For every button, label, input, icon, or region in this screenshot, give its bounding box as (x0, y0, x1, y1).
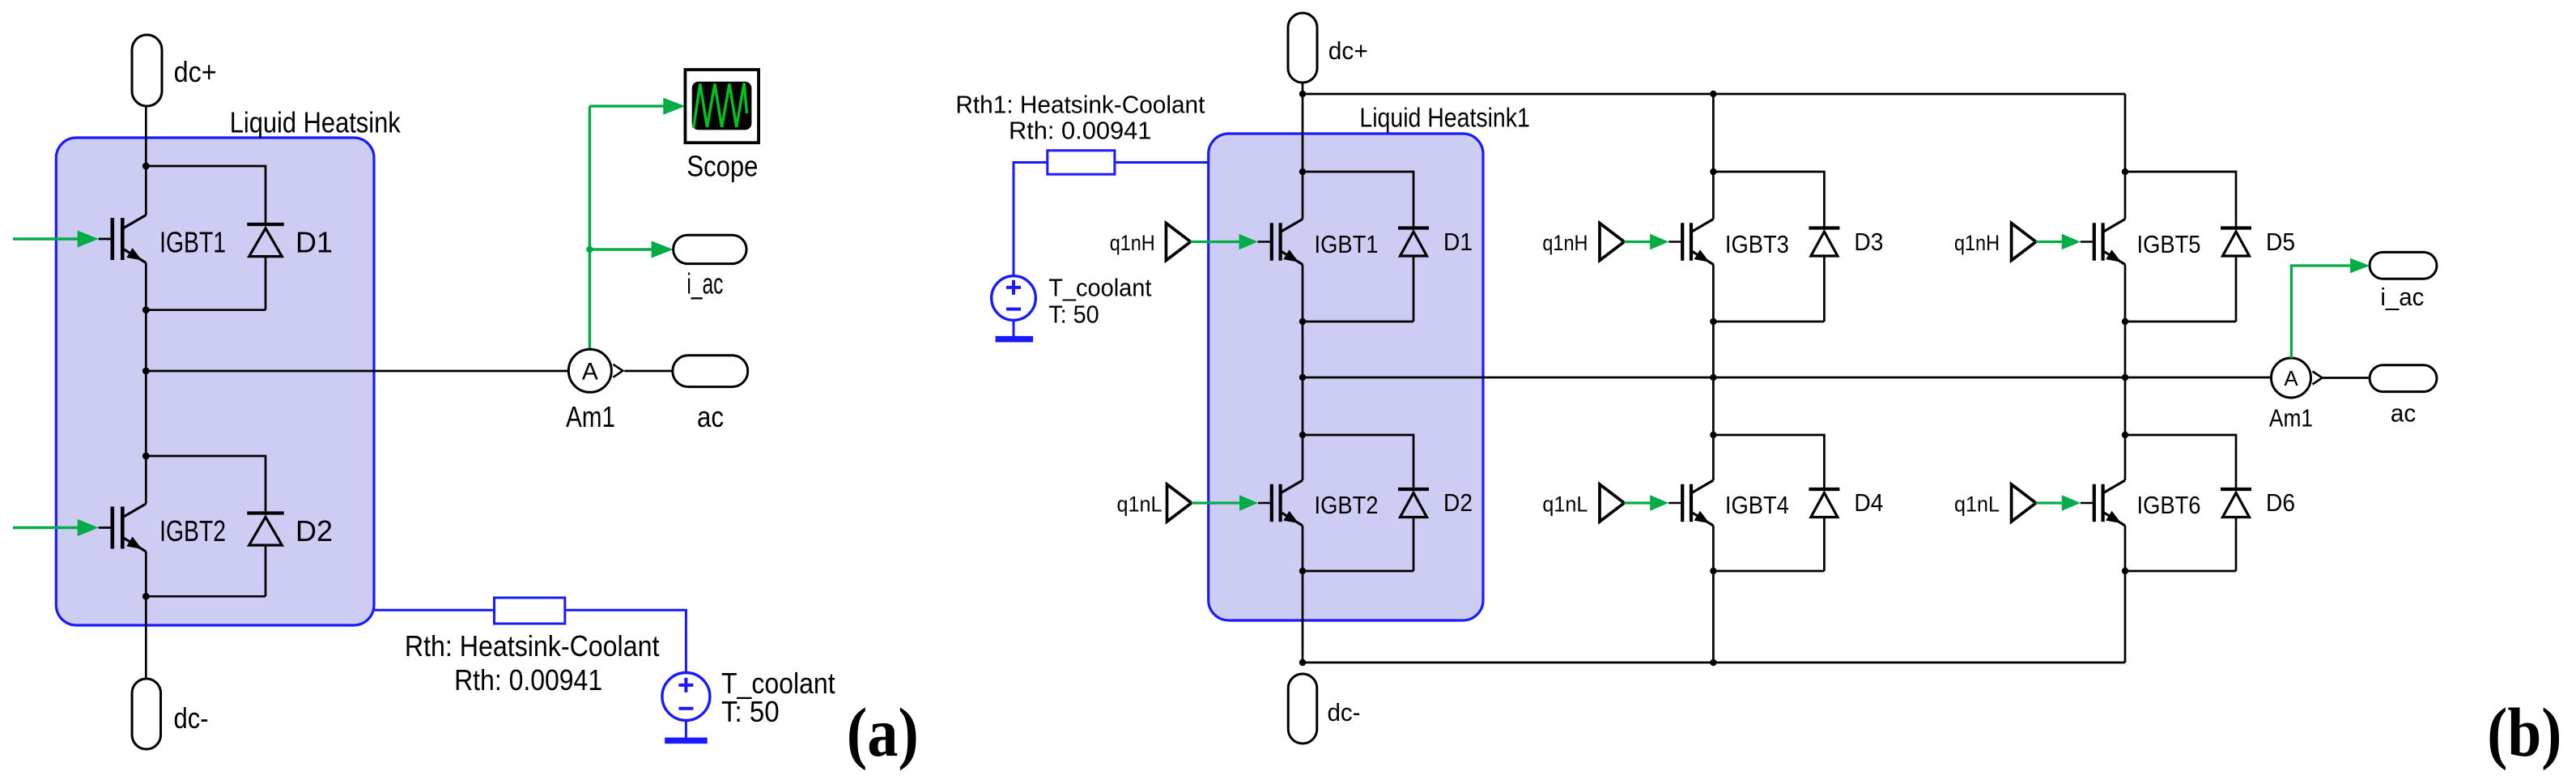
wire collector branch IGBT1/D1 (1303, 172, 1413, 228)
wire Am1 to ac (b) (2322, 377, 2370, 379)
wire collector branch IGBT6/D6 (2125, 435, 2236, 489)
label IGBT3 (1725, 230, 1789, 258)
wire D3 bottom branch (1713, 321, 1824, 323)
label D4 (1854, 488, 1883, 517)
gate arrowhead IGBT1 (78, 231, 99, 248)
wire Am1 to ac (624, 370, 673, 373)
resistor Rth1: Heatsink-Coolant (1048, 151, 1115, 174)
figure label (a) (847, 693, 919, 771)
svg-text:Rth: 0.00941: Rth: 0.00941 (454, 663, 602, 697)
transistor IGBT3 (1682, 219, 1713, 265)
node A5 junction dot (142, 593, 150, 600)
svg-text:q1nL: q1nL (1117, 492, 1163, 517)
svg-text:dc+: dc+ (1328, 36, 1368, 65)
diode D4 (1809, 489, 1839, 518)
node collector IGBT2 dot (1299, 432, 1306, 438)
svg-text:dc+: dc+ (174, 55, 217, 88)
wire Rth1 to heatsink (blue) (1115, 161, 1209, 164)
wire node A1 to IGBT1 collector (145, 166, 147, 215)
gate arrowhead q1nH leg3 (2062, 234, 2081, 249)
wire gate signal q1nH leg2 (green) (1624, 241, 1651, 243)
port i_ac (b) (2370, 252, 2437, 279)
gate arrowhead q1nH leg1 (1239, 234, 1258, 249)
label q1nH leg1 (1110, 231, 1155, 255)
label IGBT5 (2137, 230, 2201, 258)
wire IGBT1 emitter down (1302, 265, 1304, 322)
label IGBT1 (1315, 230, 1379, 258)
wire to i_ac (green) (589, 248, 652, 250)
svg-text:D2: D2 (1443, 488, 1473, 517)
wire D2 bottom branch (1303, 570, 1413, 573)
wire Am1 signal riser (green) (589, 106, 591, 349)
svg-text:(a): (a) (847, 693, 919, 771)
node emitter IGBT1 dot (1299, 318, 1306, 325)
label D5 (2266, 228, 2295, 256)
wire source to ground (b) (blue) (1013, 320, 1015, 336)
transistor IGBT5 (2094, 219, 2125, 265)
svg-text:q1nL: q1nL (1954, 492, 2000, 517)
node dc+ bus leg2 dot (1710, 91, 1716, 97)
wire gate signal q1nL leg3 (green) (2036, 501, 2064, 504)
gate arrowhead IGBT2 (78, 519, 99, 536)
svg-text:IGBT1: IGBT1 (1315, 230, 1379, 258)
svg-text:IGBT6: IGBT6 (2137, 491, 2201, 519)
node emitter IGBT4 dot (1710, 568, 1716, 574)
node phase leg2 dot (1710, 374, 1716, 381)
label q1nH leg3 (1954, 231, 2000, 255)
label Am1 (b) (2269, 403, 2313, 432)
label D3 (1854, 228, 1883, 256)
node collector IGBT1 dot (1299, 168, 1306, 175)
svg-text:Rth: Heatsink-Coolant: Rth: Heatsink-Coolant (405, 629, 660, 663)
svg-text:(b): (b) (2487, 693, 2561, 771)
label Rth1: Heatsink-Coolant (955, 90, 1205, 118)
label IGBT2 (1315, 491, 1379, 519)
wire Rth to T_coolant (blue) (565, 610, 687, 672)
svg-text:IGBT4: IGBT4 (1725, 491, 1789, 519)
wire gate lead q1nH leg3 (2081, 241, 2094, 243)
wire gate lead IGBT1 (99, 238, 113, 241)
svg-text:IGBT1: IGBT1 (159, 226, 226, 259)
wire dc+ to node A1 (145, 106, 147, 166)
svg-text:Scope: Scope (687, 149, 758, 182)
label Am1 (a) (566, 400, 615, 433)
wire T_coolant to Rth1 (blue) (1014, 163, 1048, 277)
node A2 junction dot (142, 306, 150, 313)
value label Rth: 0.00941 (454, 663, 602, 697)
wire gate signal IGBT2 (green) (13, 526, 79, 529)
wire gate lead q1nH leg2 (1668, 241, 1682, 243)
svg-text:Rth: 0.00941: Rth: 0.00941 (1009, 117, 1151, 145)
wire collector branch IGBT2/D2 top (146, 456, 266, 513)
svg-text:Rth1: Heatsink-Coolant: Rth1: Heatsink-Coolant (955, 90, 1205, 118)
value label Rth: 0.00941 (b) (1009, 117, 1151, 145)
node emitter IGBT6 dot (2122, 568, 2128, 574)
arrowhead into i_ac (652, 241, 674, 258)
svg-text:q1nH: q1nH (1954, 231, 2000, 255)
wire D2 anode down (1413, 518, 1415, 572)
wire D2 bottom branch (146, 595, 266, 598)
wire D1 bottom branch (146, 309, 266, 311)
wire node to IGBT6 collector (2124, 435, 2127, 480)
transistor IGBT2 (1272, 480, 1303, 526)
node phase leg1 dot (1299, 374, 1306, 381)
label IGBT2 (159, 514, 226, 548)
label T_coolant (b) (1048, 274, 1152, 302)
wire node to IGBT4 collector (1712, 435, 1715, 480)
wire to phase node leg1 (1302, 322, 1304, 435)
wire node A2 to node A3 (145, 310, 147, 371)
wire IGBT2 emitter to node A5 (145, 552, 147, 596)
node emitter IGBT3 dot (1710, 318, 1716, 325)
svg-text:D5: D5 (2266, 228, 2295, 256)
wire D1 bottom branch (1303, 321, 1413, 323)
transistor IGBT1 (113, 215, 147, 263)
figure label (b) (2487, 693, 2561, 771)
wire collector branch IGBT1/D1 top (146, 166, 266, 224)
wire dc+ bus (1303, 93, 2125, 96)
svg-text:IGBT2: IGBT2 (1315, 491, 1379, 519)
signal input q1nH leg3 (2012, 224, 2036, 261)
label D2 (295, 514, 333, 548)
diode D3 (1809, 228, 1839, 257)
svg-text:Am1: Am1 (2269, 403, 2313, 432)
svg-text:IGBT3: IGBT3 (1725, 230, 1789, 258)
wire to phase node leg2 (1712, 322, 1715, 435)
label ac (a) (697, 400, 724, 433)
port ac (b) (2370, 365, 2437, 392)
wire IGBT5 emitter down (2124, 265, 2127, 322)
terminal dc- (b) (1288, 674, 1317, 744)
gate arrowhead q1nH leg2 (1650, 234, 1668, 249)
node collector IGBT6 dot (2122, 432, 2128, 438)
node A3 phase node dot (142, 368, 150, 375)
label dc- (a) (174, 701, 209, 735)
label D6 (2266, 488, 2295, 517)
wire collector branch IGBT2/D2 (1303, 435, 1413, 489)
wire phase output to Am1 (146, 370, 568, 373)
ammeter Am1 (a) (568, 349, 623, 392)
wire D5 bottom branch (2125, 321, 2236, 323)
svg-text:Am1: Am1 (566, 400, 615, 433)
wire D4 anode down (1823, 518, 1826, 572)
svg-text:D1: D1 (1443, 228, 1473, 256)
wire heatsink to Rth (blue) (374, 609, 495, 611)
diode D1 (247, 224, 283, 257)
svg-text:D4: D4 (1854, 488, 1883, 517)
label IGBT6 (2137, 491, 2201, 519)
wire leg3 to dc- bus (2124, 571, 2127, 663)
ammeter Am1 (b) (2272, 358, 2323, 398)
wire bus to node top leg3 (2124, 94, 2127, 172)
diode D2 (1398, 489, 1429, 518)
svg-text:T_coolant: T_coolant (1048, 274, 1152, 302)
label q1nL leg2 (1542, 492, 1588, 517)
heatsink block: Liquid Heatsink1 (blue region) (1209, 134, 1483, 620)
svg-text:D3: D3 (1854, 228, 1883, 256)
wire node to IGBT5 collector (2124, 172, 2127, 219)
svg-text:q1nH: q1nH (1110, 231, 1155, 255)
wire bus to node top leg1 (1302, 94, 1304, 172)
label dc+ (b) (1328, 36, 1368, 65)
wire bus to node top leg2 (1712, 94, 1715, 172)
label Liquid Heatsink (230, 106, 402, 139)
svg-text:i_ac: i_ac (687, 267, 723, 300)
label ac (b) (2391, 398, 2416, 427)
wire Am1 to i_ac riser (green) (2291, 266, 2350, 358)
wire D5 anode down (2235, 256, 2238, 322)
svg-text:q1nH: q1nH (1542, 231, 1588, 255)
node A1 junction dot (142, 163, 150, 170)
value label T: 50 (b) (1048, 300, 1099, 328)
gate arrowhead q1nL leg2 (1650, 495, 1668, 510)
wire D6 anode down (2235, 518, 2238, 572)
wire gate signal q1nL leg1 (green) (1192, 501, 1241, 504)
wire leg2 to dc- bus (1712, 571, 1715, 663)
wire gate signal IGBT1 (green) (13, 237, 79, 240)
wire D4 bottom branch (1713, 570, 1824, 573)
wire D6 bottom branch (2125, 570, 2236, 573)
wire gate lead q1nL leg2 (1668, 502, 1682, 505)
label Liquid Heatsink1 (1359, 103, 1529, 133)
source T_coolant (b) (992, 276, 1036, 321)
wire D2 anode down (265, 545, 267, 596)
wire D1 anode down (1413, 256, 1415, 322)
label IGBT4 (1725, 491, 1789, 519)
transistor IGBT6 (2094, 480, 2125, 526)
label D1 (295, 226, 333, 259)
svg-text:T: 50: T: 50 (721, 695, 780, 728)
node phase leg3 dot (2122, 374, 2128, 381)
svg-text:D2: D2 (295, 514, 333, 548)
label T_coolant (a) (721, 667, 835, 700)
wire dc+ to bus (1302, 83, 1304, 94)
wire node to IGBT1 collector (1302, 172, 1304, 219)
heatsink block: Liquid Heatsink (blue region) (56, 138, 374, 625)
wire dc- bus (1303, 662, 2125, 664)
wire gate signal q1nH leg1 (green) (1191, 241, 1241, 243)
wire IGBT4 emitter down (1712, 526, 1715, 571)
gate arrowhead q1nL leg3 (2062, 495, 2081, 510)
wire collector branch IGBT5/D5 (2125, 172, 2236, 228)
arrowhead into i_ac (b) (2350, 258, 2370, 274)
signal input q1nH leg1 (1166, 224, 1190, 261)
label D1 (1443, 228, 1473, 256)
diode D1 (1398, 228, 1429, 257)
label Scope (687, 149, 758, 182)
svg-text:A: A (2284, 366, 2298, 390)
wire gate signal q1nL leg2 (green) (1624, 501, 1651, 504)
terminal dc- (a) (132, 679, 161, 749)
label dc+ (a) (174, 55, 217, 88)
svg-text:Liquid Heatsink1: Liquid Heatsink1 (1359, 103, 1529, 133)
diode D2 (247, 513, 283, 546)
wire IGBT2 emitter down (1302, 526, 1304, 571)
svg-text:i_ac: i_ac (2380, 283, 2424, 311)
value label T: 50 (a) (721, 695, 780, 728)
wire source to ground (blue) (685, 721, 687, 739)
wire phase bus to Am1 (1303, 377, 2272, 379)
label Rth: Heatsink-Coolant (405, 629, 660, 663)
svg-text:IGBT5: IGBT5 (2137, 230, 2201, 258)
signal input q1nH leg2 (1600, 224, 1624, 261)
signal input q1nL leg3 (2012, 484, 2036, 522)
label q1nL leg1 (1117, 492, 1163, 517)
svg-text:D1: D1 (295, 226, 333, 259)
wire node A3 to IGBT2 collector (145, 371, 147, 504)
svg-text:q1nL: q1nL (1542, 492, 1588, 517)
node collector IGBT3 dot (1710, 168, 1716, 175)
transistor IGBT1 (1272, 219, 1303, 265)
source T_coolant (a) (662, 673, 710, 721)
gate arrowhead q1nL leg1 (1239, 495, 1258, 510)
signal input q1nL leg2 (1600, 484, 1624, 522)
svg-text:dc-: dc- (1328, 698, 1361, 726)
terminal dc+ (b) (1288, 13, 1317, 83)
label i_ac (b) (2380, 283, 2424, 311)
wire D3 anode down (1823, 256, 1826, 322)
wire to Scope (green) (589, 104, 664, 107)
svg-text:ac: ac (697, 400, 724, 433)
diode D6 (2221, 489, 2251, 518)
node green junction dot (586, 246, 593, 253)
port ac (a) (673, 356, 748, 387)
node collector IGBT4 dot (1710, 432, 1716, 438)
label q1nL leg3 (1954, 492, 2000, 517)
node dc- bus leg1 dot (1299, 659, 1306, 666)
wire IGBT1 emitter to node A2 (145, 263, 147, 310)
arrowhead into Scope (663, 98, 685, 115)
svg-text:A: A (582, 359, 598, 386)
node A4 junction dot (142, 453, 150, 460)
wire gate lead IGBT2 (99, 526, 113, 529)
node dc- bus leg2 dot (1710, 659, 1716, 666)
label D2 (1443, 488, 1473, 517)
wire gate lead q1nH leg1 (1258, 241, 1272, 243)
wire D1 anode down (265, 257, 267, 310)
wire node to IGBT3 collector (1712, 172, 1715, 219)
wire IGBT6 emitter down (2124, 526, 2127, 571)
resistor Rth: Heatsink-Coolant (495, 598, 565, 624)
node emitter IGBT2 dot (1299, 568, 1306, 574)
svg-text:dc-: dc- (174, 701, 209, 735)
wire collector branch IGBT3/D3 (1713, 172, 1824, 228)
transistor IGBT2 (113, 504, 147, 552)
label dc- (b) (1328, 698, 1361, 726)
svg-text:D6: D6 (2266, 488, 2295, 517)
wire to phase node leg3 (2124, 322, 2127, 435)
transistor IGBT4 (1682, 480, 1713, 526)
ground (b) (996, 336, 1034, 343)
wire IGBT3 emitter down (1712, 265, 1715, 322)
node collector IGBT5 dot (2122, 168, 2128, 175)
node dc+ bus junction dot (1299, 91, 1306, 97)
signal input q1nL leg1 (1167, 484, 1192, 522)
label q1nH leg2 (1542, 231, 1588, 255)
svg-text:Liquid Heatsink: Liquid Heatsink (230, 106, 402, 139)
label i_ac (a) (687, 267, 723, 300)
wire node A5 to dc- (145, 596, 147, 679)
svg-text:T: 50: T: 50 (1048, 300, 1099, 328)
terminal dc+ (a) (132, 35, 162, 106)
wire node to IGBT2 collector (1302, 435, 1304, 480)
wire collector branch IGBT4/D4 (1713, 435, 1824, 489)
diode D5 (2221, 228, 2251, 257)
label IGBT1 (159, 226, 226, 259)
ground (a) (665, 738, 708, 744)
svg-text:ac: ac (2391, 398, 2416, 427)
wire gate lead q1nL leg3 (2081, 502, 2094, 505)
port i_ac (a) (674, 235, 747, 263)
svg-text:IGBT2: IGBT2 (159, 514, 226, 548)
node emitter IGBT5 dot (2122, 318, 2128, 325)
scope block Scope (685, 70, 759, 143)
wire gate lead q1nL leg1 (1258, 502, 1272, 505)
wire gate signal q1nH leg3 (green) (2036, 241, 2064, 243)
wire leg1 to dc- bus (1302, 571, 1304, 663)
